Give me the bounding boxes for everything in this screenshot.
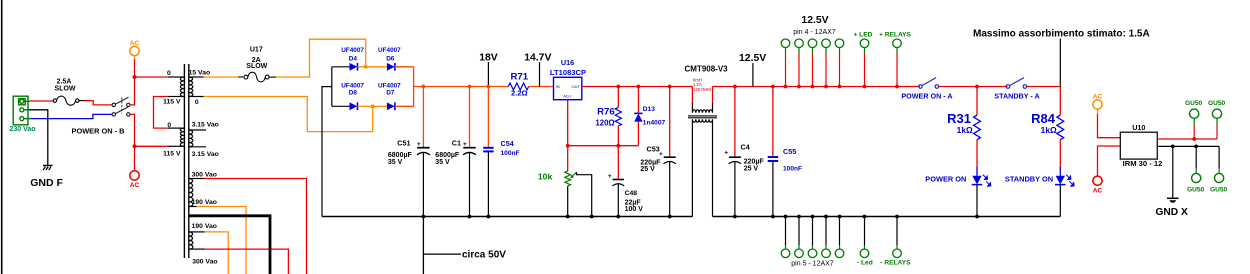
wire ADJ feedback	[568, 100, 639, 146]
capacitor C1	[463, 87, 476, 217]
svg-text:pin 5 - 12AX7: pin 5 - 12AX7	[791, 260, 834, 267]
wire pin2 to ground	[29, 110, 48, 166]
capacitor C53	[664, 87, 676, 217]
svg-text:D4: D4	[349, 56, 358, 63]
node dots output rail	[616, 85, 620, 89]
svg-text:+ RELAYS: + RELAYS	[879, 31, 911, 38]
choke top coil	[692, 108, 712, 113]
module U10 IRM 30 - 12	[1120, 132, 1157, 159]
diode D4	[332, 63, 366, 71]
svg-text:AC: AC	[130, 40, 140, 47]
svg-text:18V: 18V	[479, 53, 498, 64]
svg-text:35 V: 35 V	[435, 159, 450, 166]
svg-text:14.7V: 14.7V	[524, 53, 551, 64]
capacitor C51	[417, 87, 430, 217]
svg-text:0: 0	[167, 122, 171, 129]
svg-text:GU50: GU50	[1208, 100, 1226, 107]
svg-text:12.5V: 12.5V	[739, 53, 766, 64]
ground GND F	[43, 165, 53, 170]
svg-text:IRM 30 - 12: IRM 30 - 12	[1123, 159, 1163, 168]
svg-text:R71: R71	[510, 72, 528, 83]
LED power on	[972, 167, 991, 217]
wire node to transformer P1 top	[135, 76, 169, 78]
wire S3 top 300Vao red down right	[204, 179, 307, 274]
secondary winding S1 (15Vao/0)	[189, 77, 204, 97]
svg-text:3.15 Vao: 3.15 Vao	[192, 151, 219, 158]
svg-text:12.5V: 12.5V	[801, 15, 828, 26]
wire U10 return black to GU50 bottom	[1157, 145, 1219, 147]
capacitor C4	[729, 87, 741, 217]
wire to R84 node	[1027, 86, 1061, 88]
diode D6	[366, 63, 414, 71]
wire P1 bottom to P2 top (series link)	[154, 97, 169, 129]
bus node dots	[422, 215, 979, 219]
fuse U17	[244, 72, 276, 82]
svg-text:1n4007: 1n4007	[643, 119, 666, 126]
svg-text:U16: U16	[561, 58, 574, 67]
diode D8	[332, 102, 373, 110]
svg-text:R31: R31	[947, 111, 971, 126]
svg-text:+: +	[659, 151, 663, 158]
svg-text:C48: C48	[625, 190, 638, 197]
primary winding P2	[168, 128, 184, 146]
choke bottom coil	[692, 119, 712, 124]
svg-text:300 Vao: 300 Vao	[192, 171, 217, 178]
svg-text:pin 4 - 12AX7: pin 4 - 12AX7	[793, 29, 836, 36]
svg-text:AC: AC	[1093, 188, 1103, 195]
switch STANDBY - A	[1006, 78, 1027, 89]
svg-text:190 Vao: 190 Vao	[192, 199, 217, 206]
wire red fuse to switch pole1	[86, 101, 113, 105]
pin4 wires down to rail	[786, 48, 898, 54]
svg-text:120Ω: 120Ω	[595, 118, 614, 127]
svg-text:UF4007: UF4007	[341, 47, 364, 54]
svg-text:100nF: 100nF	[783, 165, 802, 172]
resistor R76	[615, 87, 621, 146]
svg-text:15 Vao: 15 Vao	[189, 70, 211, 77]
secondary winding S4 (190/300 Vao)	[189, 232, 205, 249]
svg-text:D8: D8	[349, 90, 358, 97]
svg-text:2.5A: 2.5A	[57, 78, 72, 85]
wire switch pole1 out up to AC node	[130, 59, 135, 105]
svg-text:circa 50V: circa 50V	[462, 249, 506, 260]
svg-text:C54: C54	[501, 139, 514, 148]
svg-text:+: +	[463, 141, 467, 148]
svg-text:+: +	[608, 173, 612, 180]
svg-text:10k: 10k	[538, 171, 553, 181]
svg-text:1kΩ: 1kΩ	[957, 125, 973, 135]
wire U10 output red to GU50 top	[1157, 138, 1217, 140]
ground GND X	[1172, 146, 1174, 198]
svg-text:UF4007: UF4007	[378, 47, 401, 54]
junction orange bottom	[371, 105, 374, 108]
GU50 connectors bottom	[1192, 173, 1201, 182]
wire S3 bottom 190Vao orange	[197, 207, 246, 274]
primary winding P1	[168, 77, 184, 97]
svg-text:STANDBY - A: STANDBY - A	[994, 91, 1039, 100]
svg-text:- Led: - Led	[857, 259, 873, 266]
svg-text:R84: R84	[1031, 111, 1056, 126]
choke bottom drops to bus	[691, 124, 693, 216]
svg-text:GND F: GND F	[30, 177, 63, 189]
svg-text:1kΩ: 1kΩ	[1041, 125, 1057, 135]
svg-text:CMT908-V3: CMT908-V3	[685, 64, 729, 73]
svg-text:UF4007: UF4007	[378, 82, 401, 89]
ground bus left segment	[322, 216, 692, 218]
svg-text:C4: C4	[741, 142, 750, 151]
capacitor C55	[768, 87, 778, 217]
svg-text:+: +	[724, 150, 728, 157]
choke core lines	[688, 115, 717, 117]
node dot P1 top tee	[133, 75, 137, 79]
wire S4 bottom 300Vao red	[205, 249, 289, 274]
choke left leads	[691, 87, 693, 104]
svg-text:SLOW: SLOW	[246, 63, 267, 70]
svg-text:POWER ON - B: POWER ON - B	[72, 127, 125, 136]
svg-text:D7: D7	[386, 90, 395, 97]
wire red pin1 to fuse	[30, 100, 53, 102]
wire S1 bottom 0 to bridge bottom (orange)	[204, 97, 373, 132]
svg-text:3.15 Vao: 3.15 Vao	[192, 122, 219, 129]
secondary winding S3 (300/190 Vao)	[189, 179, 204, 207]
wire AC top to U10	[1098, 114, 1121, 138]
potentiometer 10k	[565, 146, 577, 217]
svg-text:C51: C51	[397, 139, 410, 148]
svg-text:R76: R76	[597, 107, 615, 118]
svg-text:GU50: GU50	[1187, 186, 1205, 193]
svg-text:UF4007: UF4007	[341, 82, 364, 89]
fuse 2.5A SLOW	[53, 96, 85, 105]
thick shield wire	[189, 216, 270, 274]
svg-text:GU50: GU50	[1185, 100, 1203, 107]
svg-text:25 V: 25 V	[640, 166, 655, 173]
12.5V rail right of choke	[713, 86, 921, 88]
LED standby on	[1055, 167, 1074, 217]
svg-text:SLOW: SLOW	[55, 85, 76, 92]
resistor R71	[508, 83, 529, 90]
wire S1 top orange to fuse U17	[204, 76, 239, 78]
wire blue pin3 to switch pole2	[31, 114, 113, 118]
node dot P2 bottom tee	[133, 144, 137, 148]
svg-text:POWER ON - A: POWER ON - A	[901, 91, 952, 100]
svg-text:25 V: 25 V	[744, 166, 759, 173]
op-amp U16 LT1083CP regulator	[554, 77, 582, 99]
svg-text:115 V: 115 V	[163, 151, 181, 158]
bridge rectifier rails	[331, 67, 333, 107]
wire node to transformer P2 bottom	[135, 145, 169, 147]
svg-text:2.2Ω: 2.2Ω	[511, 88, 528, 97]
svg-text:C1: C1	[452, 139, 461, 148]
svg-text:100nF: 100nF	[501, 150, 520, 157]
svg-text:0: 0	[195, 99, 199, 106]
wire AC bottom to U10	[1098, 146, 1121, 176]
wire S4 top 190Vao orange	[205, 232, 229, 274]
svg-text:AC: AC	[130, 182, 140, 189]
svg-text:D13: D13	[643, 106, 655, 113]
AC connector bottom right (red)	[1093, 176, 1102, 185]
AC connector bottom (red)	[130, 171, 139, 180]
svg-text:220µF: 220µF	[744, 158, 765, 165]
svg-text:Massimo assorbimento stimato: Massimo assorbimento stimato: 1.5A	[973, 29, 1150, 40]
svg-text:- RELAYS: - RELAYS	[880, 259, 911, 266]
svg-text:C53: C53	[647, 145, 660, 154]
svg-text:IN: IN	[556, 84, 560, 89]
switch POWER ON - A	[919, 78, 939, 89]
svg-text:C55: C55	[783, 147, 796, 156]
svg-text:U17: U17	[250, 46, 263, 53]
junction orange top	[364, 65, 367, 68]
resistor R31	[974, 87, 981, 168]
diode D7	[373, 102, 414, 110]
pin4 connector circles	[781, 39, 901, 48]
svg-text:300 Vao: 300 Vao	[192, 258, 217, 265]
svg-text:GU50: GU50	[1210, 186, 1228, 193]
diode D13	[634, 87, 642, 146]
svg-text:+ LED: + LED	[854, 31, 873, 38]
AC connector top (orange)	[134, 56, 136, 59]
connector J1 230Vao	[13, 96, 30, 125]
svg-text:LT1083CP: LT1083CP	[550, 68, 586, 77]
svg-text:230 Vao: 230 Vao	[10, 126, 36, 133]
svg-text:+: +	[417, 141, 421, 148]
svg-text:0: 0	[167, 70, 171, 77]
wire pot wiper to bus	[577, 172, 592, 216]
svg-text:35 V: 35 V	[388, 159, 403, 166]
node dots raw rail	[422, 85, 426, 89]
secondary winding S2 (3.15Vao)	[189, 130, 206, 147]
circa 50V line	[422, 217, 424, 274]
wire R71 to U16	[529, 86, 554, 88]
transformer core	[183, 64, 185, 258]
pin5 connector row	[786, 217, 898, 246]
wire to R31 node	[939, 86, 1008, 88]
svg-text:U10: U10	[1132, 123, 1145, 132]
svg-text:115 V: 115 V	[163, 98, 181, 105]
svg-text:100 V: 100 V	[625, 206, 644, 213]
svg-text:STANDBY ON: STANDBY ON	[1005, 175, 1053, 184]
GU50 connectors top	[1190, 109, 1199, 118]
raw DC rail to regulator	[414, 86, 509, 88]
svg-text:GND X: GND X	[1156, 207, 1188, 218]
svg-text:OUT: OUT	[572, 84, 581, 89]
svg-text:POWER ON: POWER ON	[925, 175, 966, 184]
svg-text:120 OHM: 120 OHM	[693, 87, 711, 92]
svg-text:ADJ: ADJ	[563, 94, 571, 99]
ground bus right segment	[713, 216, 1061, 218]
12.5V output rail	[582, 86, 693, 88]
wire fuse to bridge top (orange)	[276, 39, 366, 77]
capacitor C54	[483, 87, 493, 217]
wire bridge negative tap	[322, 87, 332, 217]
resistor R84	[1057, 87, 1064, 168]
capacitor C48	[612, 146, 624, 217]
svg-text:D6: D6	[386, 56, 395, 63]
switch POWER ON - B	[112, 97, 130, 116]
svg-text:190 Vao: 190 Vao	[192, 223, 217, 230]
wire switch pole2 out down to AC node	[130, 114, 135, 170]
choke right leads	[712, 87, 714, 104]
frame border left	[1, 0, 3, 274]
